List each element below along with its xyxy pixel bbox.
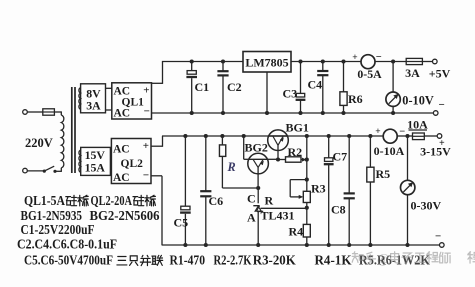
svg-text:15A: 15A	[85, 160, 106, 174]
resistor R6	[343, 62, 345, 92]
wire R3 branch from rail	[306, 136, 308, 180]
svg-text:+: +	[143, 140, 149, 152]
svg-text:R4-1K: R4-1K	[315, 253, 352, 269]
terminal 220V top	[23, 110, 28, 115]
wire fuse to +5V terminal	[422, 61, 432, 63]
svg-text:−: −	[144, 106, 150, 118]
ammeter PA2 0-10A	[383, 129, 397, 143]
svg-text:R5: R5	[376, 167, 391, 181]
resistor R1	[221, 136, 223, 145]
svg-text:C2.C4.C6.C8-0.1uF: C2.C4.C6.C8-0.1uF	[17, 236, 117, 252]
svg-text:A: A	[247, 211, 256, 225]
fuse 10A	[405, 134, 409, 138]
capacitor C2	[222, 62, 224, 71]
svg-text:+: +	[143, 85, 149, 97]
svg-text:BG2: BG2	[245, 141, 268, 155]
svg-text:+5V: +5V	[429, 67, 451, 81]
svg-text:C5.C6-50V4700uF: C5.C6-50V4700uF	[24, 253, 113, 269]
capacitor C6	[205, 136, 207, 191]
fuse 3A	[406, 58, 422, 64]
svg-text:−: −	[143, 170, 149, 182]
svg-text:3A: 3A	[405, 66, 420, 80]
svg-text:QL2: QL2	[121, 158, 144, 170]
svg-text:220V: 220V	[25, 136, 53, 150]
wire top rail upper	[162, 61, 243, 63]
svg-text:0-5A: 0-5A	[357, 67, 382, 81]
terminal +5V	[433, 59, 438, 64]
svg-text:C2: C2	[227, 80, 242, 94]
svg-text:R: R	[265, 194, 274, 208]
transformer core	[71, 87, 73, 173]
watermark	[352, 251, 475, 266]
svg-text:C7: C7	[333, 150, 348, 164]
wire TL431 ref to R3/R4 node	[261, 207, 307, 209]
svg-text:0-30V: 0-30V	[411, 199, 442, 213]
svg-text:@: @	[377, 251, 389, 266]
svg-text:R: R	[227, 160, 236, 174]
svg-text:C: C	[247, 192, 256, 206]
resistor R2	[278, 159, 286, 161]
ammeter PA1 0-5A	[361, 55, 375, 69]
capacitor C7	[328, 136, 330, 158]
svg-text:C6: C6	[209, 194, 224, 208]
svg-text:TL431: TL431	[261, 209, 295, 223]
svg-text:AC: AC	[113, 143, 130, 155]
terminal 3-15V	[437, 134, 442, 139]
svg-text:R2: R2	[288, 145, 303, 159]
svg-text:BG1: BG1	[286, 121, 309, 135]
wire R1 bottom to TL431 node	[222, 187, 258, 189]
wire LM7805 ground lead	[266, 72, 268, 113]
svg-text:BG2-2N5606: BG2-2N5606	[90, 208, 160, 224]
wire QL2- down to lower bottom rail	[151, 175, 162, 177]
transistor BG1	[268, 130, 289, 151]
winding label box 8V 3A	[81, 84, 106, 113]
fuse FU	[43, 109, 55, 115]
wire	[27, 111, 43, 113]
svg-text:QL2-20A: QL2-20A	[91, 193, 133, 209]
transformer T primary winding	[61, 115, 64, 168]
svg-text:R3: R3	[311, 182, 326, 196]
capacitor C3	[300, 62, 302, 94]
capacitor C8	[348, 136, 350, 193]
wire	[55, 170, 61, 172]
terminal 220V bottom	[23, 168, 28, 173]
svg-text:AC: AC	[114, 108, 131, 120]
svg-text:C4: C4	[308, 78, 323, 92]
wire rail after 0-10A meter	[397, 135, 412, 137]
wire bottom rail lower	[162, 244, 440, 246]
svg-text:C1: C1	[195, 80, 210, 94]
svg-text:C3: C3	[283, 87, 298, 101]
transistor BG2	[248, 153, 269, 174]
wire top rail upper (meter to fuse)	[375, 61, 406, 63]
svg-text:3-15V: 3-15V	[420, 145, 451, 159]
potentiometer R3 (rheostat)	[305, 178, 309, 182]
svg-text:LM7805: LM7805	[245, 55, 288, 69]
svg-text:C8: C8	[331, 203, 346, 217]
svg-text:−: −	[376, 52, 382, 63]
switch K	[43, 170, 46, 173]
wire BG2 base bar to BG1 base node	[267, 158, 278, 160]
svg-text:3A: 3A	[86, 98, 101, 112]
wire fuse 10A to 3-15V terminal	[424, 135, 437, 137]
voltmeter PV1 0-10V	[392, 62, 394, 93]
bridge rectifier QL1	[112, 83, 152, 119]
svg-text:R1-470: R1-470	[170, 253, 206, 269]
terminal lower minus	[440, 243, 445, 248]
svg-text:QL1: QL1	[122, 96, 145, 108]
svg-text:AC: AC	[113, 172, 130, 184]
capacitor C1	[191, 62, 193, 71]
svg-text:R4: R4	[289, 225, 304, 239]
svg-text:R2-2.7K: R2-2.7K	[214, 253, 252, 269]
svg-text:R6: R6	[348, 92, 363, 106]
svg-text:QL1-5A: QL1-5A	[24, 193, 66, 209]
wire	[54, 111, 61, 113]
regulator U1 LM7805	[243, 52, 291, 73]
wire	[27, 170, 43, 172]
winding label box 15V 15A	[81, 147, 111, 175]
svg-text:0-10A: 0-10A	[374, 144, 405, 158]
wire top rail lower	[162, 135, 383, 137]
svg-text:C1-25V2200uF: C1-25V2200uF	[21, 222, 95, 238]
svg-text:−: −	[439, 99, 445, 111]
wire	[106, 87, 112, 89]
svg-text:−: −	[435, 231, 441, 243]
capacitor C4	[322, 62, 324, 71]
svg-text:+: +	[375, 127, 380, 137]
wire QL2+ to lower rail	[151, 145, 163, 147]
wire	[106, 109, 112, 111]
terminal upper minus	[433, 111, 438, 116]
svg-text:R3-20K: R3-20K	[253, 253, 296, 269]
wire top rail upper (LM7805 to meter)	[291, 61, 361, 63]
svg-text:0-10V: 0-10V	[402, 93, 434, 107]
resistor R4	[303, 224, 310, 237]
resistor R5	[369, 136, 371, 167]
capacitor C5	[184, 136, 186, 206]
svg-text:+: +	[352, 53, 357, 63]
transformer secondary winding 1 (8V 3A)	[79, 88, 81, 110]
svg-text:−: −	[399, 127, 405, 138]
svg-text:C5: C5	[174, 215, 189, 229]
transformer secondary winding 2 (15V 15A)	[79, 150, 81, 172]
shunt regulator TL431	[257, 188, 259, 203]
voltmeter PV2 0-30V	[407, 136, 409, 180]
wire QL1+ to top rail	[152, 82, 163, 84]
bridge rectifier QL2	[111, 139, 151, 184]
wire bottom rail upper	[152, 112, 434, 114]
wire rail to BG2 base	[243, 136, 245, 159]
